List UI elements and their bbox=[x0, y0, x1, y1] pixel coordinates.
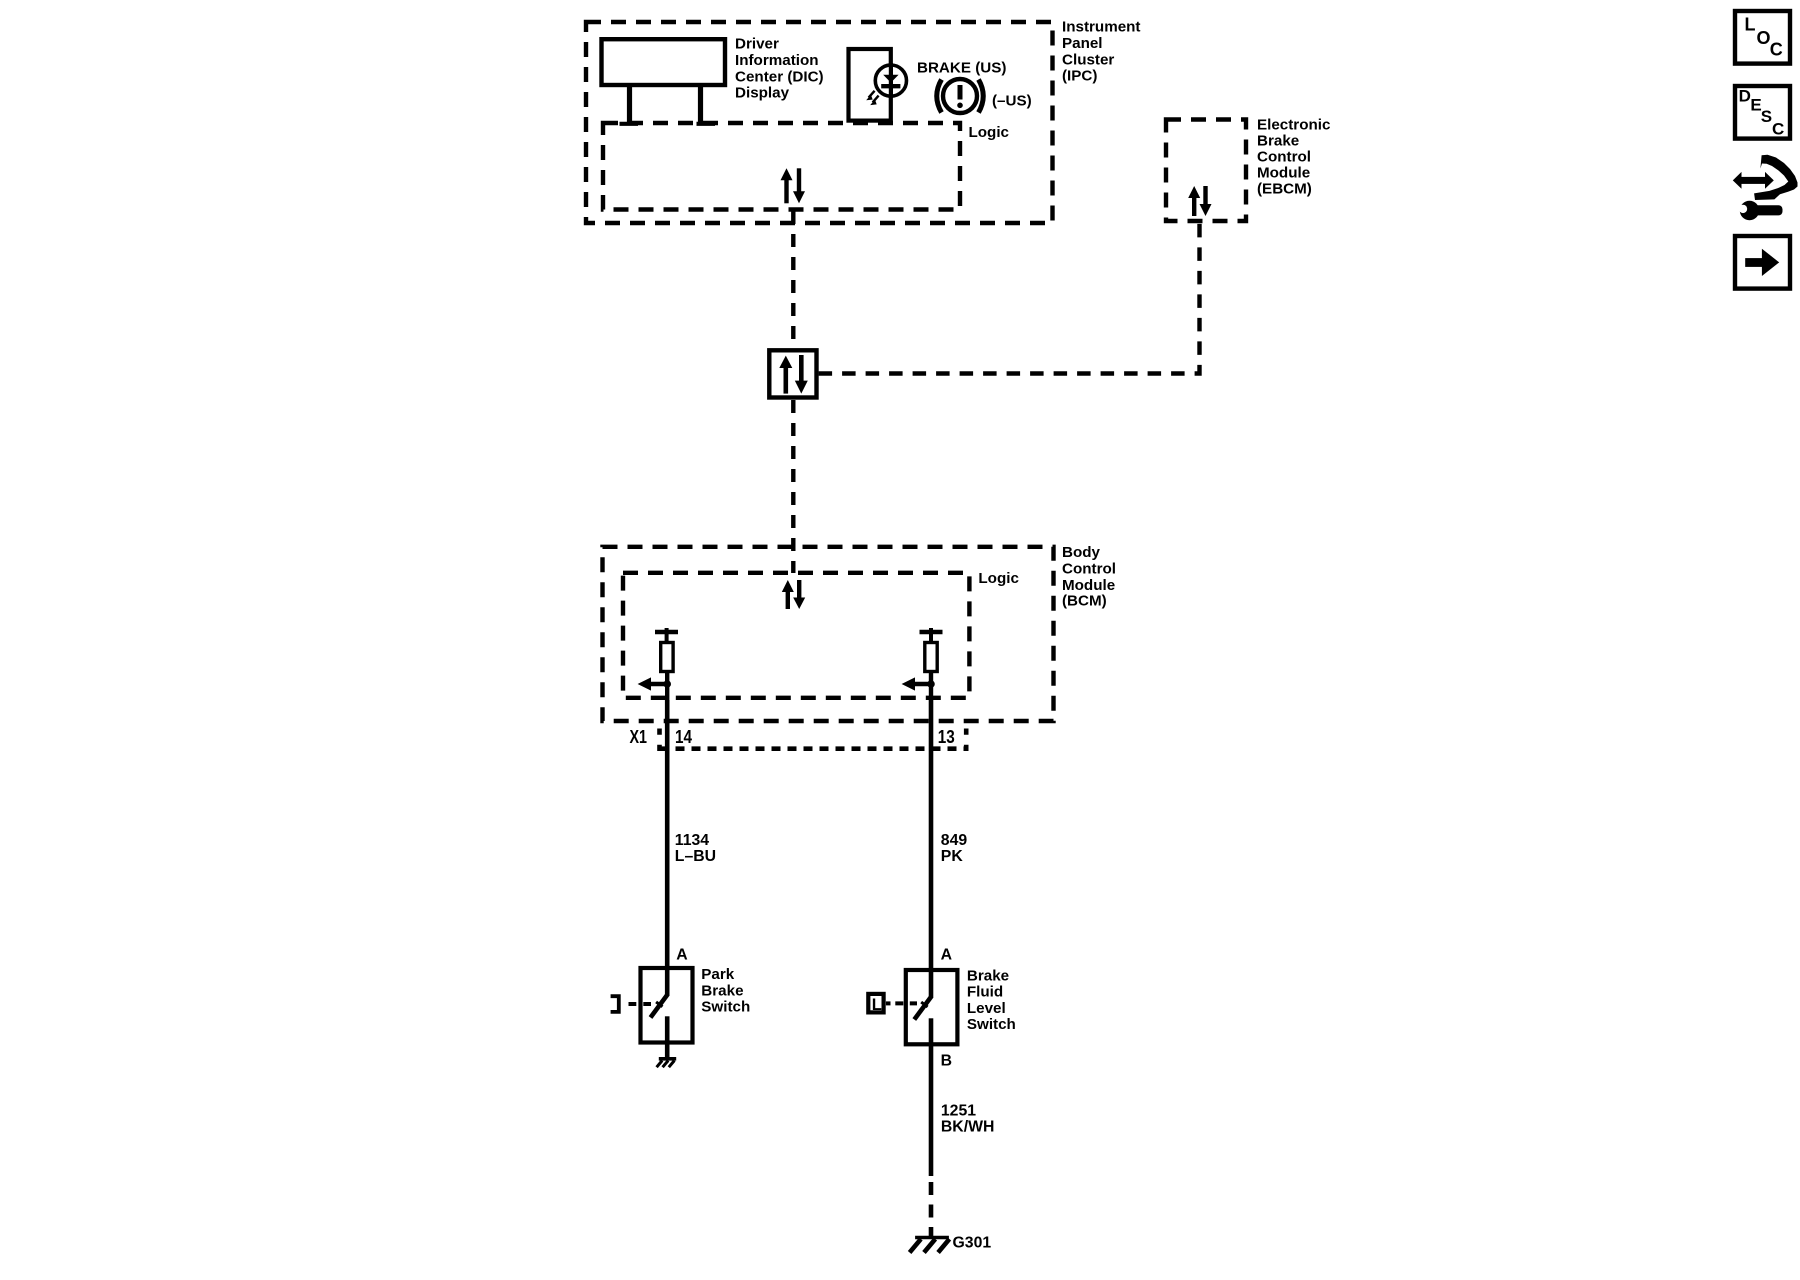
svg-text:Switch: Switch bbox=[701, 999, 750, 1016]
DIC display bbox=[602, 39, 726, 124]
svg-text:Park: Park bbox=[701, 966, 734, 983]
wire: park brake switch to ground bbox=[665, 1043, 670, 1059]
svg-text:Instrument: Instrument bbox=[1062, 19, 1140, 36]
svg-text:14: 14 bbox=[675, 727, 692, 747]
label Park Brake Switch bbox=[701, 966, 750, 1016]
fluid switch blade tick bbox=[921, 1002, 927, 1007]
wire to G301 (dashed) bbox=[929, 1182, 934, 1237]
label 849 PK bbox=[941, 832, 968, 865]
svg-text:L–BU: L–BU bbox=[675, 848, 716, 865]
svg-text:D: D bbox=[1739, 86, 1751, 105]
resistor R2 (right pull-up in BCM) bbox=[920, 628, 943, 700]
ground G301 bbox=[910, 1238, 950, 1253]
ground (park brake switch chassis ground) bbox=[657, 1059, 677, 1067]
wire 1134 L-BU (pin 14 to park brake switch) bbox=[665, 700, 670, 968]
brake warning symbol ((!)) bbox=[937, 79, 984, 113]
label Brake Fluid Level Switch bbox=[967, 967, 1016, 1033]
svg-text:Body: Body bbox=[1062, 544, 1101, 561]
svg-text:O: O bbox=[1757, 28, 1771, 48]
park brake switch S1 bbox=[641, 968, 693, 1043]
svg-text:(EBCM): (EBCM) bbox=[1257, 181, 1312, 198]
svg-text:1134: 1134 bbox=[675, 832, 709, 849]
wire 1251 BK/WH (solid) bbox=[929, 1044, 934, 1176]
label 1134 L-BU bbox=[675, 832, 716, 865]
connector X1 (BCM) bbox=[660, 729, 967, 752]
EBCM serial arrows bbox=[1188, 186, 1211, 216]
svg-text:Electronic: Electronic bbox=[1257, 117, 1330, 134]
park brake blade tick bbox=[656, 1002, 662, 1007]
wire 849 PK (pin 13 to fluid level switch) bbox=[929, 700, 934, 970]
svg-text:Center (DIC): Center (DIC) bbox=[735, 68, 824, 85]
svg-text:Information: Information bbox=[735, 52, 819, 69]
svg-text:1251: 1251 bbox=[941, 1103, 976, 1120]
svg-text:X1: X1 bbox=[630, 727, 648, 747]
wire: gateway to EBCM (dashed) bbox=[819, 223, 1200, 374]
svg-text:Brake: Brake bbox=[701, 982, 743, 999]
svg-text:Driver: Driver bbox=[735, 36, 779, 53]
svg-text:L: L bbox=[1745, 14, 1756, 34]
module box IPC (Instrument Panel Cluster) bbox=[586, 22, 1053, 223]
svg-text:PK: PK bbox=[941, 848, 964, 865]
icon data-link (double arrow + hook + wrench) bbox=[1733, 155, 1798, 221]
fluid level sensor L box bbox=[868, 994, 883, 1014]
wire: IPC to gateway (dashed serial data) bbox=[791, 211, 795, 348]
serial data arrows (IPC) bbox=[781, 168, 806, 203]
svg-text:Brake: Brake bbox=[967, 967, 1009, 984]
serial data gateway box bbox=[769, 350, 816, 397]
svg-text:A: A bbox=[676, 947, 687, 964]
junction + output arrow (left) bbox=[638, 677, 671, 690]
svg-text:Control: Control bbox=[1062, 560, 1116, 577]
svg-text:Control: Control bbox=[1257, 149, 1311, 166]
svg-text:L: L bbox=[872, 996, 882, 1014]
svg-text:S: S bbox=[1761, 107, 1772, 126]
svg-text:Logic: Logic bbox=[978, 570, 1019, 587]
park brake actuator dashed link bbox=[629, 1002, 652, 1006]
fluid switch actuator dashed link bbox=[886, 1001, 891, 1005]
BCM logic box bbox=[623, 573, 969, 698]
svg-text:Brake: Brake bbox=[1257, 133, 1299, 150]
svg-text:Fluid: Fluid bbox=[967, 984, 1003, 1001]
label EBCM bbox=[1257, 117, 1330, 198]
svg-text:Cluster: Cluster bbox=[1062, 51, 1114, 68]
svg-text:(BCM): (BCM) bbox=[1062, 592, 1107, 609]
svg-text:13: 13 bbox=[938, 727, 955, 747]
svg-text:Module: Module bbox=[1062, 577, 1115, 594]
IPC logic box bbox=[603, 123, 960, 210]
svg-text:Level: Level bbox=[967, 1000, 1006, 1017]
icon LOC bbox=[1735, 11, 1790, 64]
junction + output arrow (right) bbox=[902, 677, 935, 690]
module box BCM bbox=[603, 547, 1054, 721]
park brake actuator bracket bbox=[611, 996, 619, 1012]
lamp flash arrows bbox=[869, 91, 879, 103]
svg-text:C: C bbox=[1772, 120, 1784, 139]
BCM serial arrows bbox=[782, 580, 805, 609]
label IPC bbox=[1062, 19, 1140, 85]
module box EBCM bbox=[1166, 120, 1246, 222]
svg-text:BK/WH: BK/WH bbox=[941, 1119, 995, 1136]
svg-text:G301: G301 bbox=[953, 1235, 992, 1252]
svg-text:B: B bbox=[941, 1053, 952, 1070]
svg-text:A: A bbox=[941, 947, 952, 964]
svg-text:Switch: Switch bbox=[967, 1016, 1016, 1033]
svg-text:Display: Display bbox=[735, 85, 790, 102]
brake fluid level switch S2 bbox=[906, 970, 958, 1044]
label BCM bbox=[1062, 544, 1116, 609]
icon DESC bbox=[1735, 86, 1790, 139]
indicator lamp (BRAKE lamp) bbox=[849, 49, 907, 121]
svg-text:(–US): (–US) bbox=[992, 92, 1032, 109]
svg-text:C: C bbox=[1770, 40, 1783, 60]
svg-text:Module: Module bbox=[1257, 165, 1310, 182]
svg-text:849: 849 bbox=[941, 832, 968, 849]
svg-text:BRAKE (US): BRAKE (US) bbox=[917, 60, 1006, 77]
wire: gateway to BCM (dashed) bbox=[791, 400, 795, 573]
svg-text:Logic: Logic bbox=[969, 124, 1010, 141]
resistor R1 (left pull-up in BCM) bbox=[655, 628, 678, 700]
svg-text:Panel: Panel bbox=[1062, 35, 1103, 52]
label 1251 BK/WH bbox=[941, 1103, 995, 1136]
icon next arrow bbox=[1735, 236, 1790, 289]
svg-text:(IPC): (IPC) bbox=[1062, 68, 1097, 85]
label DIC display bbox=[735, 36, 824, 102]
